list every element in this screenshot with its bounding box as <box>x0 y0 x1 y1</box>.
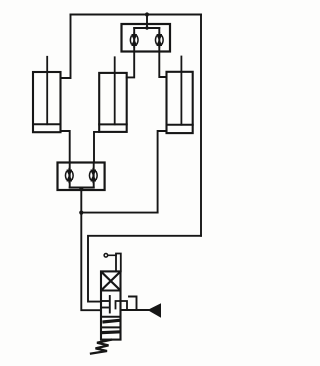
valve DV1 center box blocked stem <box>109 296 111 313</box>
valve DV1 center box left port dash lower <box>102 307 108 309</box>
wire B1 right branch down to cylinder 3 <box>159 28 166 77</box>
cylinder C3 piston <box>167 124 193 126</box>
valve DV1 divider 2 <box>101 316 121 318</box>
valve DV1 divider 3 <box>101 326 121 328</box>
wire C2 bottom port to block B2 <box>94 132 99 163</box>
pilot roller circle <box>104 254 108 258</box>
cylinder C2 body <box>99 73 127 132</box>
node J1 junction dot top <box>145 12 149 16</box>
valve DV1 center box left port dash upper <box>102 300 108 302</box>
spring return zigzag <box>91 340 111 354</box>
wire B2 inner bus <box>70 187 94 189</box>
wire B2 left branch through <box>69 163 71 188</box>
flow control V1 in B1 <box>130 33 138 47</box>
wire return manifold to valve port B <box>88 236 201 302</box>
arrow source triangle <box>148 303 162 318</box>
cylinder C3 rod <box>180 57 182 125</box>
pilot lever line <box>108 254 116 256</box>
cylinder C1 piston <box>33 123 61 125</box>
valve block B1 (twin flow controls, top) <box>122 24 171 52</box>
valve DV1 crossed arrows X second diagonal <box>102 272 121 290</box>
wire left riser to cylinder 1 <box>61 15 71 79</box>
wire C3 bottom port down <box>158 131 167 213</box>
cylinder C2 piston <box>99 123 127 125</box>
valve DV1 divider 1 <box>101 290 121 292</box>
wire inner tee of block B1 <box>134 27 159 29</box>
valve DV1 crossed arrows X <box>102 272 121 290</box>
wire top manifold horizontal <box>71 14 202 16</box>
pilot actuator cap <box>116 254 121 272</box>
valve block B2 (twin flow controls, middle left) <box>58 163 105 191</box>
cylinder C1 body <box>33 72 61 132</box>
wire C1 bottom port to block B2 <box>61 131 70 163</box>
wire tank hook <box>129 297 137 311</box>
node J3 block B2 outlet dot <box>79 187 83 191</box>
wire block B1 top feed <box>146 15 148 29</box>
wire junction to cylinder 3 riser <box>81 212 157 214</box>
wire B1 left branch down to cylinder 2 <box>127 28 135 77</box>
valve DV1 solenoid bar upper <box>104 321 118 322</box>
wire B2 outlet down to valve port A <box>81 188 101 311</box>
wire right long riser <box>200 15 202 236</box>
wire B2 right branch through <box>93 163 95 188</box>
flow control V4 in B2 <box>89 169 97 183</box>
valve DV1 body <box>101 271 121 339</box>
valve DV1 right port pocket <box>116 301 128 309</box>
wire valve outlet to arrow <box>121 309 149 311</box>
cylinder C3 body <box>167 72 193 133</box>
node J4 junction dot <box>79 211 83 215</box>
cylinder C1 rod <box>46 57 48 124</box>
cylinder C2 rod <box>114 57 116 124</box>
flow control V2 in B1 <box>155 33 163 47</box>
node J2 inner tee dot <box>145 26 148 29</box>
flow control V3 in B2 <box>65 169 73 183</box>
valve DV1 solenoid bar lower <box>103 330 119 334</box>
